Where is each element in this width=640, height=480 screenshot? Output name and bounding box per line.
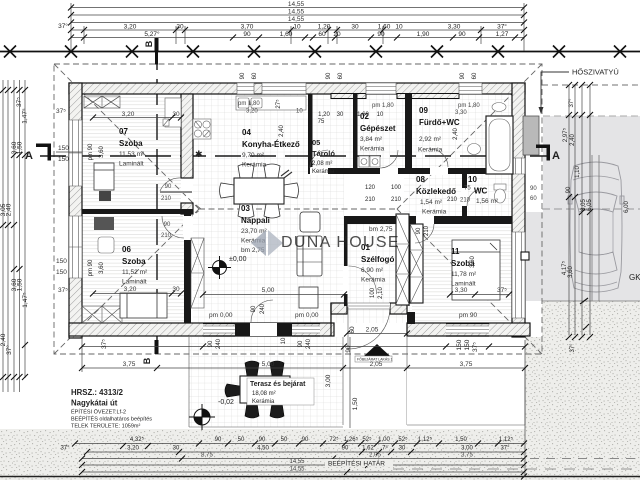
svg-text:pm 1,80: pm 1,80 xyxy=(458,103,480,109)
svg-text:60: 60 xyxy=(349,326,356,334)
glass front threshold living room right xyxy=(292,324,320,337)
svg-text:08: 08 xyxy=(416,175,425,184)
armchair xyxy=(300,212,320,232)
porch recess wall step right xyxy=(390,303,407,314)
svg-text:A: A xyxy=(552,150,560,162)
svg-text:90: 90 xyxy=(240,72,246,79)
svg-text:2,92 m²: 2,92 m² xyxy=(419,136,442,143)
interior wall windbreak left xyxy=(344,224,348,306)
heat pump unit xyxy=(523,116,539,155)
svg-text:1,50: 1,50 xyxy=(455,437,467,443)
svg-text:90: 90 xyxy=(243,31,251,38)
top dimension labels row4 xyxy=(56,22,507,115)
svg-text:1,10: 1,10 xyxy=(575,166,581,178)
svg-text:Kerámia: Kerámia xyxy=(360,146,385,153)
gravel ground texture bottom band xyxy=(0,429,640,480)
svg-text:150: 150 xyxy=(464,339,471,350)
svg-text:Laminált: Laminált xyxy=(122,279,147,286)
threshold room11 terrace door xyxy=(446,324,489,337)
svg-text:2,08 m²: 2,08 m² xyxy=(312,161,332,167)
svg-text:90: 90 xyxy=(165,184,172,190)
lintel column windbreak left xyxy=(396,214,409,305)
svg-text:3,70: 3,70 xyxy=(241,24,254,31)
door gap living to windbreak xyxy=(343,266,349,294)
svg-text:BEÉPÍTÉSI HATÁR: BEÉPÍTÉSI HATÁR xyxy=(328,459,385,468)
heat pump leader line xyxy=(541,72,569,110)
door gap storage xyxy=(310,167,328,175)
svg-text:11,52 m²: 11,52 m² xyxy=(122,269,148,276)
door arc terrace sliding xyxy=(251,300,273,322)
svg-text:90: 90 xyxy=(530,186,537,192)
svg-text:07: 07 xyxy=(119,127,128,136)
interior wall room07 right xyxy=(181,94,193,178)
svg-text:10: 10 xyxy=(395,24,403,31)
svg-text:Gépészet: Gépészet xyxy=(360,124,396,133)
svg-text:Fürdő+WC: Fürdő+WC xyxy=(419,118,460,127)
svg-text:2,40: 2,40 xyxy=(6,203,13,216)
svg-text:Tároló: Tároló xyxy=(312,149,335,158)
interior wall windbreak right edge lines xyxy=(408,224,410,306)
svg-text:10: 10 xyxy=(468,175,477,184)
tv cabinet xyxy=(299,287,318,308)
svg-text:240: 240 xyxy=(306,338,312,349)
top dimension chain lines xyxy=(71,3,524,51)
main entrance label box xyxy=(355,356,393,362)
interior wall mechanical/bathroom xyxy=(405,94,412,174)
outer wall left xyxy=(69,83,82,338)
svg-text:37°: 37° xyxy=(497,23,507,31)
room 06 laminate floor xyxy=(82,214,184,323)
kitchen + living room tiled floor xyxy=(193,94,344,323)
svg-text:2,40: 2,40 xyxy=(453,128,459,140)
svg-text:5,27°: 5,27° xyxy=(144,30,160,38)
svg-text:150: 150 xyxy=(56,269,67,276)
door arc room06 xyxy=(162,216,184,238)
svg-text:90: 90 xyxy=(416,227,422,234)
interior door dims corridor xyxy=(365,185,458,203)
svg-text:75: 75 xyxy=(464,186,471,192)
svg-text:52⁵: 52⁵ xyxy=(362,436,372,443)
svg-text:37°: 37° xyxy=(500,446,510,452)
survey marker terrace top xyxy=(208,256,231,279)
svg-text:03: 03 xyxy=(241,204,250,213)
svg-text:3,30: 3,30 xyxy=(455,287,468,294)
svg-text:90: 90 xyxy=(251,305,257,312)
wall bump right xyxy=(521,252,529,260)
svg-text:90: 90 xyxy=(460,72,466,79)
toilet wc xyxy=(494,184,506,203)
section axis in parking xyxy=(542,208,640,210)
svg-text:1,60: 1,60 xyxy=(357,112,369,118)
left dimension ticks xyxy=(0,87,28,380)
dining table xyxy=(220,164,299,218)
watermark logo diamond xyxy=(251,230,283,256)
svg-text:1,12⁵: 1,12⁵ xyxy=(418,436,433,443)
wall pier foot mechanical/bath xyxy=(397,94,459,99)
svg-text:1,47⁵: 1,47⁵ xyxy=(22,292,29,308)
svg-text:10: 10 xyxy=(281,337,287,344)
outer wall right xyxy=(512,83,525,337)
interior wall storage/mechanical xyxy=(353,94,358,174)
interior wall horizontal under storage row xyxy=(308,168,512,174)
room 04 label xyxy=(242,128,300,169)
svg-text:1,12⁵: 1,12⁵ xyxy=(499,436,514,443)
svg-text:240: 240 xyxy=(216,338,222,349)
site boundary line top xyxy=(0,51,640,53)
site boundary line bottom xyxy=(0,476,640,478)
svg-text:90: 90 xyxy=(298,340,304,347)
svg-text:240: 240 xyxy=(260,303,266,314)
svg-text:pm 1,80: pm 1,80 xyxy=(238,101,260,107)
svg-text:pm 1,80: pm 1,80 xyxy=(372,103,394,109)
door arc wc xyxy=(467,188,485,206)
svg-text:11,78 m²: 11,78 m² xyxy=(451,271,477,278)
section marker B top xyxy=(144,38,159,65)
svg-text:1,50: 1,50 xyxy=(17,278,24,291)
svg-text:3,75: 3,75 xyxy=(461,453,473,459)
section marker A right xyxy=(536,145,560,163)
svg-text:Közlekedő: Közlekedő xyxy=(416,187,456,196)
svg-text:1,00: 1,00 xyxy=(378,437,390,443)
svg-text:90: 90 xyxy=(259,437,266,443)
washbasin bathroom xyxy=(468,144,481,155)
svg-text:30: 30 xyxy=(172,111,180,118)
svg-text:1,60: 1,60 xyxy=(280,31,293,38)
interior wall kitchen/storage xyxy=(308,94,313,174)
bottom dims row A labels xyxy=(130,436,514,443)
svg-text:04: 04 xyxy=(242,128,251,137)
car top view xyxy=(568,162,624,292)
svg-text:75: 75 xyxy=(318,119,325,125)
terrace table xyxy=(225,361,305,418)
left rotated labels xyxy=(0,97,29,355)
room 07 label xyxy=(119,127,145,168)
svg-text:pm 90: pm 90 xyxy=(88,143,94,160)
svg-text:Kerámia: Kerámia xyxy=(252,399,275,405)
svg-text:10: 10 xyxy=(293,24,301,31)
bathtub xyxy=(486,116,513,174)
lintel boxes room07 top xyxy=(84,96,120,108)
svg-text:2,05: 2,05 xyxy=(369,453,381,459)
svg-text:52⁵: 52⁵ xyxy=(398,436,408,443)
window top wall mechanical xyxy=(366,83,396,94)
svg-text:HRSZ.: 4313/2: HRSZ.: 4313/2 xyxy=(71,388,124,397)
svg-text:1,90: 1,90 xyxy=(417,31,430,38)
interior wall corridor/wc xyxy=(462,174,467,216)
roof eave dashed outline xyxy=(54,64,542,354)
svg-text:3,20: 3,20 xyxy=(122,111,135,118)
corridor + wc tiled floor xyxy=(404,174,512,224)
outer wall bottom right part xyxy=(407,323,530,336)
svg-text:GK: GK xyxy=(629,273,640,282)
svg-text:210: 210 xyxy=(391,197,402,203)
door gap bathroom xyxy=(430,167,448,175)
svg-text:90: 90 xyxy=(302,437,309,443)
svg-text:90: 90 xyxy=(215,437,222,443)
closet room07 xyxy=(163,98,181,127)
svg-text:6,05: 6,05 xyxy=(587,199,593,211)
svg-text:3,20: 3,20 xyxy=(124,286,137,293)
svg-text:Laminált: Laminált xyxy=(119,161,144,168)
svg-text:B: B xyxy=(142,357,152,364)
svg-text:B: B xyxy=(144,40,154,47)
door arc mechanical xyxy=(380,150,398,168)
window right wall room11 xyxy=(512,232,525,318)
svg-text:10: 10 xyxy=(377,112,384,118)
lintel column windbreak right xyxy=(410,224,423,304)
terrace label xyxy=(247,378,314,405)
svg-text:2,40: 2,40 xyxy=(570,134,576,146)
svg-text:1,26⁵: 1,26⁵ xyxy=(344,436,359,443)
svg-text:8,75: 8,75 xyxy=(201,453,213,459)
top dimension labels row5 xyxy=(144,30,508,38)
svg-text:37⁵: 37⁵ xyxy=(101,339,108,349)
door gap corridor to windbreak xyxy=(416,215,434,225)
interior wall horizontal corridor bottom xyxy=(344,216,512,224)
window left wall room07 xyxy=(69,120,82,186)
svg-text:60: 60 xyxy=(338,72,344,79)
svg-text:1,20: 1,20 xyxy=(318,112,330,118)
svg-text:90: 90 xyxy=(345,345,352,353)
svg-text:2,05: 2,05 xyxy=(370,361,383,368)
svg-text:2,05: 2,05 xyxy=(366,327,379,334)
dashed boundary segment bottom right xyxy=(530,458,640,460)
svg-text:3,00: 3,00 xyxy=(325,374,332,387)
svg-text:3,60: 3,60 xyxy=(568,266,574,278)
svg-text:1,62: 1,62 xyxy=(362,446,374,452)
door arc room07 xyxy=(160,191,192,193)
walkway rotated dims xyxy=(101,326,479,410)
svg-text:14,55: 14,55 xyxy=(288,1,305,8)
svg-text:Szélfogó: Szélfogó xyxy=(361,255,394,264)
left dimension chain lines xyxy=(3,80,25,392)
svg-text:7⁵: 7⁵ xyxy=(382,445,388,452)
svg-text:30: 30 xyxy=(337,112,344,118)
bottom dimension chain rows xyxy=(75,444,524,473)
svg-text:Kerámia: Kerámia xyxy=(418,147,443,154)
boundary X marks xyxy=(4,46,626,58)
svg-text:Terasz és bejárat: Terasz és bejárat xyxy=(250,381,306,388)
svg-text:3,60: 3,60 xyxy=(99,146,105,158)
survey marker terrace bottom xyxy=(189,404,215,430)
bottom dims row B labels xyxy=(60,445,510,452)
door arc bathroom xyxy=(430,149,448,167)
stove xyxy=(193,119,211,139)
window top wall pantry xyxy=(262,83,306,94)
svg-text:11: 11 xyxy=(451,247,460,256)
svg-text:37⁵: 37⁵ xyxy=(472,342,479,352)
svg-text:WC: WC xyxy=(474,187,488,196)
svg-text:5,00: 5,00 xyxy=(262,287,275,294)
svg-text:Kerámia: Kerámia xyxy=(361,277,386,284)
svg-text:60: 60 xyxy=(318,31,326,38)
svg-text:2,40: 2,40 xyxy=(0,333,7,346)
svg-text:90: 90 xyxy=(566,186,572,193)
kitchen counter with sink xyxy=(236,96,306,110)
svg-text:37⁵: 37⁵ xyxy=(16,97,23,107)
svg-text:90: 90 xyxy=(458,31,466,38)
bottom dim line under house xyxy=(82,337,525,477)
svg-text:37°: 37° xyxy=(58,22,68,30)
svg-text:150: 150 xyxy=(56,258,67,265)
svg-text:37⁵: 37⁵ xyxy=(497,287,507,294)
wall pier foot kitchen/storage xyxy=(331,94,366,99)
svg-text:3,20: 3,20 xyxy=(124,24,137,31)
sofa xyxy=(297,236,322,276)
svg-text:Kerámia: Kerámia xyxy=(422,209,447,216)
room 11 label xyxy=(451,247,477,288)
svg-text:3,00: 3,00 xyxy=(461,446,473,452)
svg-text:37°: 37° xyxy=(569,98,575,108)
interior wall room07/06 divider xyxy=(82,209,193,214)
svg-text:4,32⁵: 4,32⁵ xyxy=(130,436,145,443)
top dimension tick marks xyxy=(68,5,527,41)
svg-text:3,60: 3,60 xyxy=(99,262,105,274)
svg-text:DUNA HOUSE: DUNA HOUSE xyxy=(281,234,400,251)
svg-text:90: 90 xyxy=(326,72,332,79)
door gap mechanical xyxy=(380,167,398,175)
white walkway from entrance xyxy=(343,337,407,425)
svg-text:1,50: 1,50 xyxy=(352,397,359,410)
white yard rectangle right of walkway xyxy=(407,367,525,425)
svg-text:3,84 m²: 3,84 m² xyxy=(360,136,383,143)
svg-text:pm 90: pm 90 xyxy=(88,259,94,276)
svg-text:3,75: 3,75 xyxy=(123,361,136,368)
svg-text:6,00: 6,00 xyxy=(624,201,630,213)
svg-text:3,20: 3,20 xyxy=(127,446,139,452)
svg-text:210: 210 xyxy=(161,196,172,202)
section line A-A dashed xyxy=(40,155,548,157)
svg-text:210: 210 xyxy=(365,197,376,203)
svg-text:3,30: 3,30 xyxy=(455,110,467,116)
svg-text:37⁵: 37⁵ xyxy=(56,108,66,115)
interior wall room06 right xyxy=(184,214,191,323)
svg-text:120: 120 xyxy=(365,185,376,191)
svg-text:1,27: 1,27 xyxy=(496,31,509,38)
svg-text:37⁵: 37⁵ xyxy=(58,287,68,294)
svg-text:✱: ✱ xyxy=(195,149,203,159)
svg-text:14,55: 14,55 xyxy=(289,459,305,465)
svg-text:20: 20 xyxy=(333,31,341,38)
svg-text:100: 100 xyxy=(391,185,402,191)
room 01 label xyxy=(361,243,394,284)
svg-text:Kerámia: Kerámia xyxy=(312,169,335,175)
svg-text:72⁵: 72⁵ xyxy=(329,436,339,443)
door arc room11 xyxy=(415,224,434,243)
room 02 label xyxy=(360,112,396,153)
svg-text:50: 50 xyxy=(281,437,288,443)
door size labels room06/07 xyxy=(88,99,476,276)
bed room06 xyxy=(120,293,167,318)
svg-text:30: 30 xyxy=(351,24,359,31)
svg-text:90: 90 xyxy=(342,446,349,452)
svg-text:210: 210 xyxy=(460,198,471,204)
svg-text:09: 09 xyxy=(419,106,428,115)
svg-text:1,60: 1,60 xyxy=(378,24,391,31)
room 03 label xyxy=(229,204,270,263)
svg-text:11,53 m²: 11,53 m² xyxy=(119,151,145,158)
glass front threshold living room left xyxy=(203,324,235,337)
svg-text:1,50: 1,50 xyxy=(17,141,24,154)
svg-text:±0,00: ±0,00 xyxy=(229,256,247,263)
windbreak tiled floor xyxy=(344,216,412,323)
svg-text:05: 05 xyxy=(312,138,320,147)
main entrance arrow xyxy=(364,344,390,356)
room 10 label xyxy=(468,175,499,205)
window top wall kitchen xyxy=(237,83,254,94)
section line B-B dashed xyxy=(156,44,158,352)
svg-text:Szoba: Szoba xyxy=(119,139,143,148)
door arc living-windbreak xyxy=(349,266,377,294)
parking area bottom edge xyxy=(542,300,640,302)
parking pavement area right xyxy=(526,116,640,301)
svg-text:1,54 m²: 1,54 m² xyxy=(420,199,443,206)
svg-text:100: 100 xyxy=(370,287,376,298)
parking stripe lines xyxy=(591,155,593,301)
svg-text:27⁵: 27⁵ xyxy=(275,99,282,109)
door arc storage xyxy=(310,150,328,168)
svg-text:3,60: 3,60 xyxy=(470,256,476,268)
roof ridge line xyxy=(199,208,397,210)
svg-text:210: 210 xyxy=(447,197,458,203)
svg-text:30: 30 xyxy=(399,446,406,452)
svg-text:10: 10 xyxy=(296,109,303,115)
svg-text:14,55: 14,55 xyxy=(289,467,305,473)
svg-text:14,55: 14,55 xyxy=(288,16,305,23)
room 09 label xyxy=(418,106,460,154)
svg-text:4,17⁵: 4,17⁵ xyxy=(561,260,568,275)
room 08 label xyxy=(416,175,456,216)
svg-text:2,97⁵: 2,97⁵ xyxy=(562,127,569,142)
room 06 label xyxy=(122,245,148,286)
svg-text:Kerámia: Kerámia xyxy=(242,162,267,169)
svg-text:3,30: 3,30 xyxy=(448,24,461,31)
lintel box room06 bottom window xyxy=(82,306,122,323)
washer dryer mechanical xyxy=(359,156,380,167)
svg-text:-0,02: -0,02 xyxy=(218,399,234,406)
svg-text:37°: 37° xyxy=(570,343,576,353)
svg-text:1,56 m²: 1,56 m² xyxy=(476,198,499,205)
svg-text:HŐSZIVATYÚ: HŐSZIVATYÚ xyxy=(572,68,619,77)
bed room07 xyxy=(94,163,114,190)
right edge arrow stack xyxy=(72,441,527,480)
svg-text:1,47⁵: 1,47⁵ xyxy=(22,108,29,124)
svg-text:150: 150 xyxy=(456,339,463,350)
svg-text:Nagykátai út: Nagykátai út xyxy=(71,399,118,408)
outer wall bottom left part xyxy=(69,323,334,336)
svg-text:A: A xyxy=(25,150,33,162)
window right wall wc xyxy=(512,158,525,174)
svg-text:Konyha-Étkező: Konyha-Étkező xyxy=(242,140,300,149)
svg-text:06: 06 xyxy=(122,245,131,254)
porch recess wall step left xyxy=(331,303,347,314)
svg-text:150: 150 xyxy=(58,156,69,163)
window size labels above top wall xyxy=(240,72,478,79)
svg-text:90: 90 xyxy=(377,31,385,38)
building limit label xyxy=(325,459,393,468)
svg-text:Szoba: Szoba xyxy=(122,257,146,266)
svg-text:pm 0,00: pm 0,00 xyxy=(295,312,319,319)
roof hip line bottom-left xyxy=(54,209,199,354)
gravel ground texture right side xyxy=(542,301,640,429)
svg-text:6,90 m²: 6,90 m² xyxy=(361,267,384,274)
room 11 laminate floor xyxy=(412,224,512,323)
svg-text:50: 50 xyxy=(238,437,245,443)
terrace tiled floor xyxy=(189,337,343,427)
bed room11 xyxy=(452,240,500,300)
storage/mechanical/bath tiled floor xyxy=(308,94,512,174)
svg-text:210: 210 xyxy=(424,225,430,236)
